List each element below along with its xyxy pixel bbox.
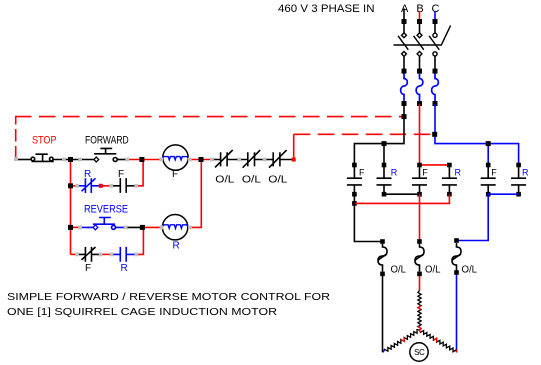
svg-text:REVERSE: REVERSE [84,204,128,216]
svg-text:O/L: O/L [242,173,261,185]
svg-text:R: R [391,167,398,177]
svg-text:O/L: O/L [268,173,287,185]
svg-text:O/L: O/L [215,173,234,185]
svg-text:FORWARD: FORWARD [85,135,129,147]
svg-text:F: F [359,167,365,177]
svg-text:F: F [85,263,91,274]
svg-text:A: A [401,3,409,15]
svg-text:SIMPLE FORWARD / REVERSE MOTOR: SIMPLE FORWARD / REVERSE MOTOR CONTROL F… [7,291,330,303]
svg-text:R: R [121,263,128,274]
svg-text:SC: SC [414,348,425,357]
svg-text:O/L: O/L [462,265,478,276]
svg-text:F: F [422,167,428,177]
svg-text:STOP: STOP [32,135,57,147]
svg-text:R: R [455,167,462,177]
svg-text:F: F [491,167,497,177]
svg-text:O/L: O/L [391,265,407,276]
svg-text:460 V 3 PHASE IN: 460 V 3 PHASE IN [278,3,375,15]
svg-text:O/L: O/L [425,265,441,276]
svg-text:R: R [522,167,529,177]
svg-text:R: R [173,241,180,252]
svg-text:ONE [1] SQUIRREL CAGE INDUCTIO: ONE [1] SQUIRREL CAGE INDUCTION MOTOR [7,306,277,318]
